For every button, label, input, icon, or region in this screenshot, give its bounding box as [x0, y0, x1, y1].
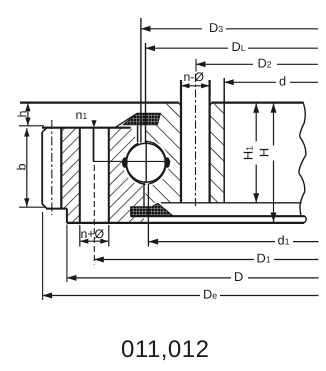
hatch outer(geared) ring left band with step — [61, 128, 80, 223]
svg-text:n1: n1 — [76, 108, 88, 122]
hatch outer ring right band — [109, 128, 138, 223]
top face — [20, 101, 179, 103]
vertical line through ball — [145, 142, 147, 183]
gap above ball — [137, 126, 139, 143]
outer ring top face — [19, 125, 44, 127]
white cover: seal slot opening — [131, 103, 161, 113]
inner ring hole walls + chamfers — [180, 80, 182, 203]
gap below ball — [143, 183, 145, 207]
contact pinch left — [122, 157, 128, 168]
hatch outer ring below-ball sliver — [138, 178, 144, 223]
recess line — [161, 202, 302, 204]
tooth bottom — [19, 206, 46, 208]
n-Ø dim — [181, 85, 210, 87]
D2 — [196, 63, 253, 65]
dimension lines — [24, 26, 318, 300]
hatch inner ring right of hole — [210, 104, 225, 203]
wavy break — [299, 102, 306, 216]
tapped hole line — [93, 128, 95, 162]
svg-text:h: h — [16, 110, 30, 117]
ball centerline — [93, 160, 171, 162]
bottom face — [67, 222, 304, 224]
hatch inner ring main — [146, 104, 182, 203]
svg-text:n+Ø: n+Ø — [81, 227, 105, 241]
n1 leader — [91, 120, 96, 127]
b dim — [26, 128, 28, 206]
white cover: race zone disc — [123, 140, 169, 186]
white cover: shoulder triangle above gap — [131, 127, 138, 143]
De — [43, 295, 200, 297]
lip top line — [131, 215, 305, 217]
centerlines — [52, 59, 196, 265]
seal slot chamfer line — [115, 113, 138, 127]
D — [67, 277, 231, 279]
DL — [146, 47, 229, 49]
svg-text:b: b — [15, 163, 29, 170]
white gap strip below ball — [144, 182, 148, 207]
contact pinch right — [164, 157, 170, 168]
svg-text:D: D — [234, 269, 243, 284]
H1 dim — [255, 103, 257, 141]
svg-text:d: d — [279, 73, 286, 88]
ball — [126, 143, 165, 182]
svg-text:H: H — [257, 148, 272, 157]
D3 — [141, 28, 202, 30]
d1 — [149, 241, 275, 243]
D1 — [94, 259, 254, 261]
upper seal — [123, 113, 160, 125]
svg-text:011,012: 011,012 — [121, 336, 209, 363]
race arc left — [126, 143, 146, 184]
H dim — [273, 103, 275, 145]
hatch boundary / d extension — [223, 78, 225, 203]
h dim — [27, 103, 29, 125]
race arc right — [146, 141, 166, 184]
tooth profile — [41, 132, 43, 204]
lower seal — [131, 203, 174, 216]
outer ring hole walls — [79, 128, 81, 223]
svg-text:n-Ø: n-Ø — [184, 70, 205, 84]
d — [224, 81, 276, 83]
n+Ø dim — [80, 240, 109, 242]
lip right end — [304, 216, 306, 223]
